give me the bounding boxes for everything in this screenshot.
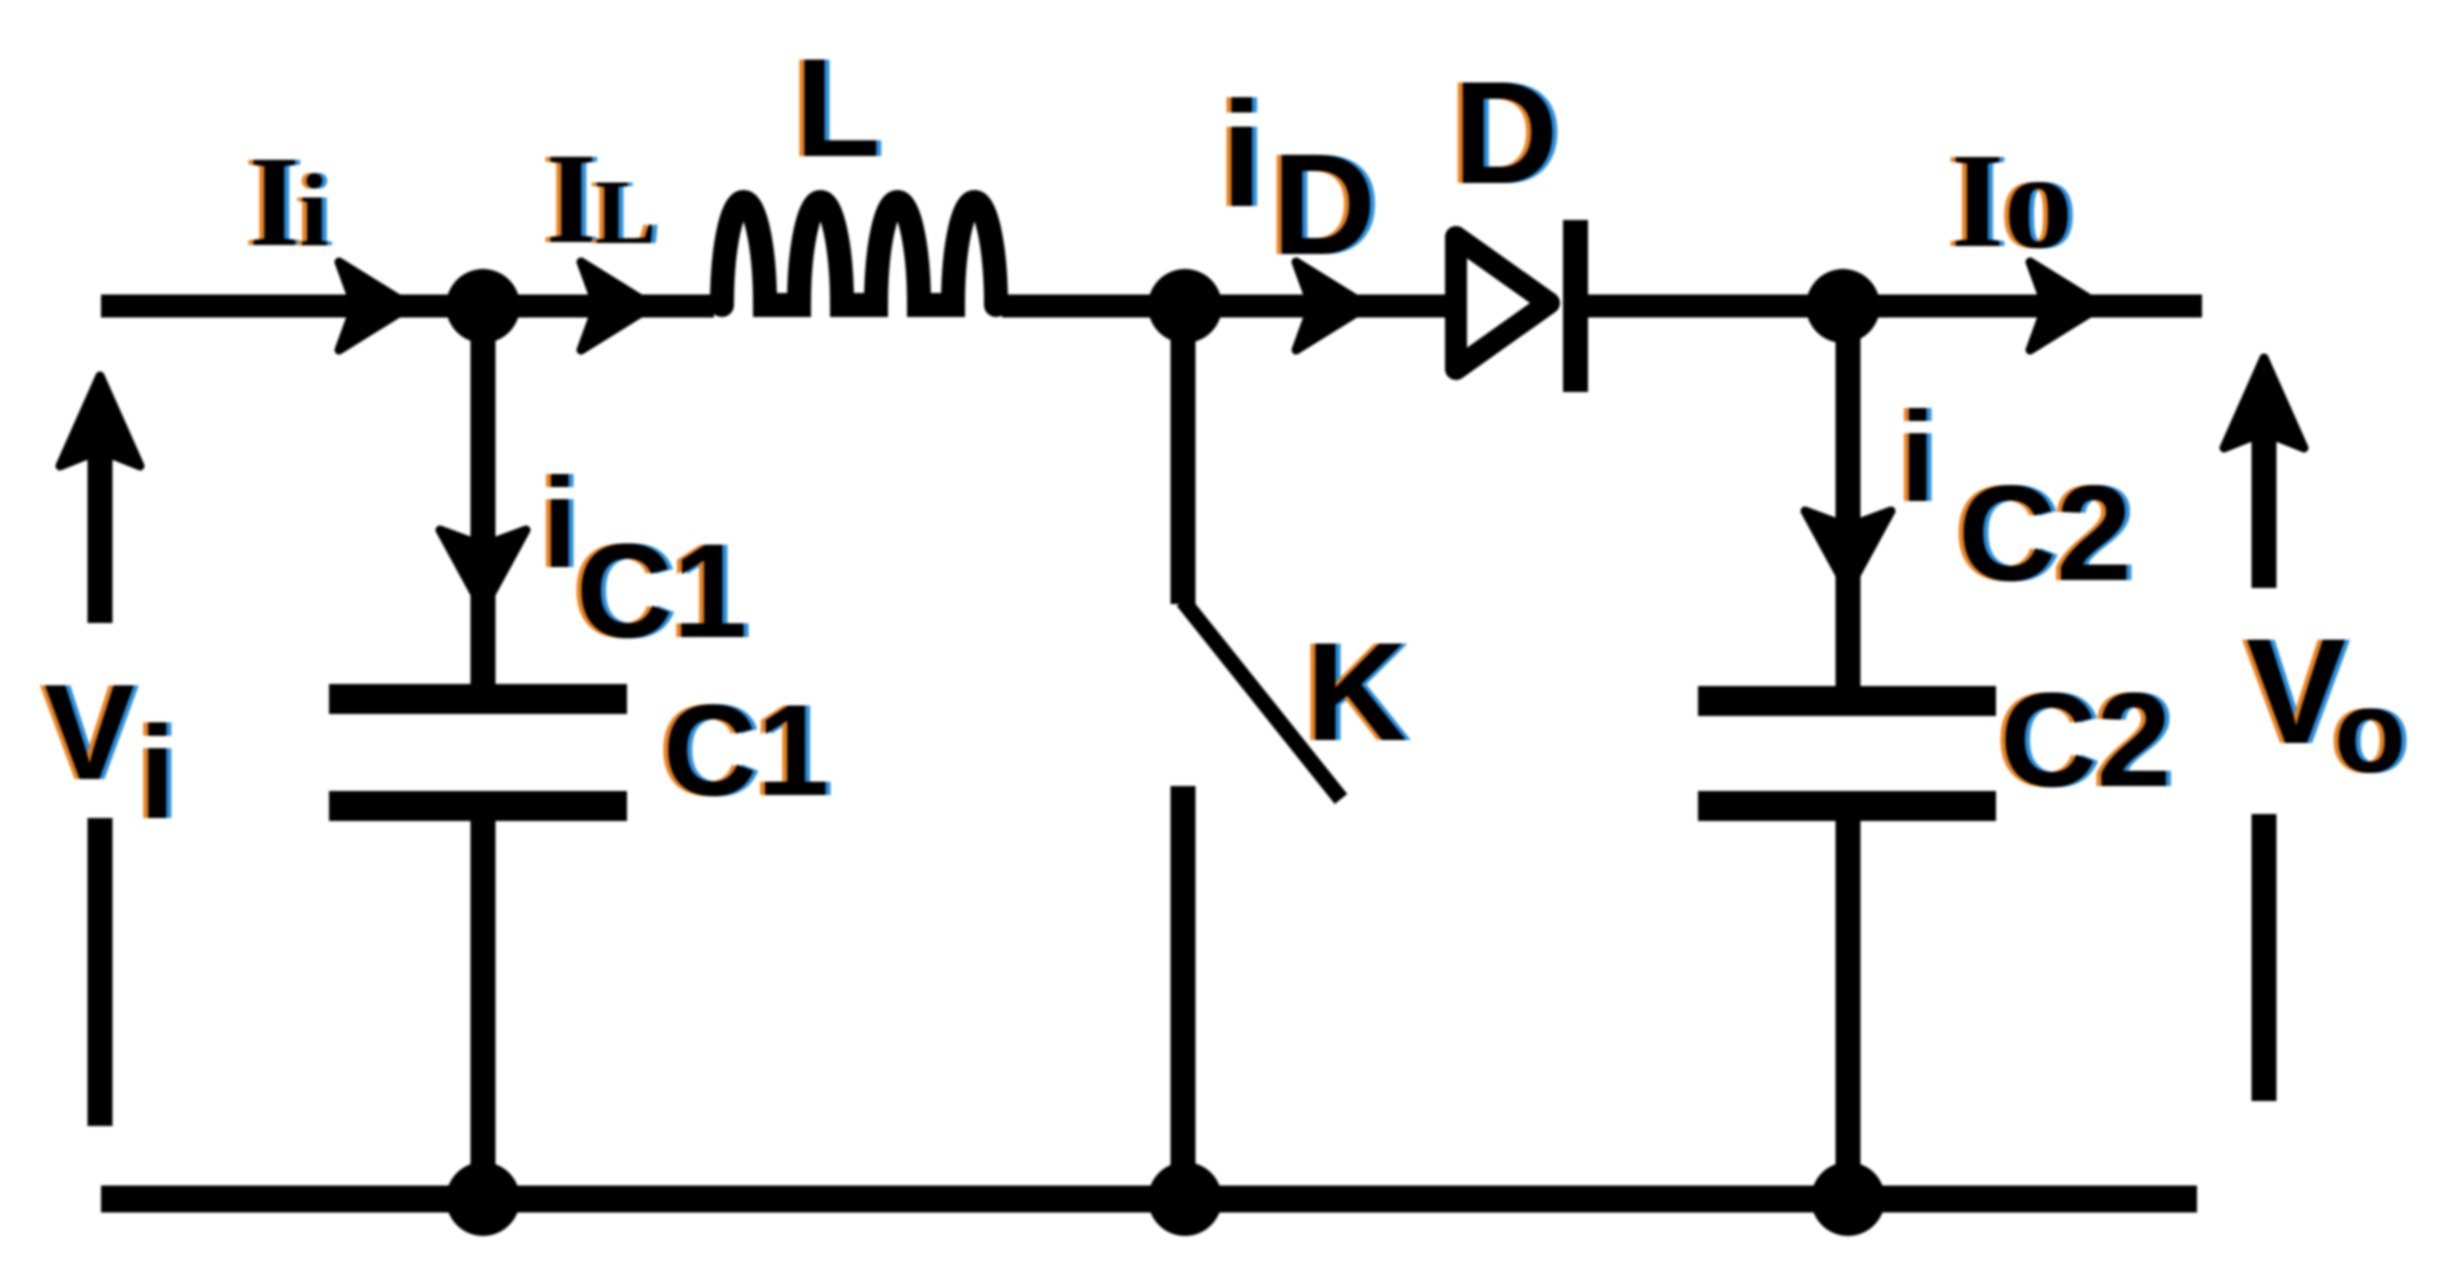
diode D cathode bar bbox=[1563, 220, 1588, 392]
svg-text:C2: C2 bbox=[1958, 457, 2132, 609]
wire C1 upper stem bbox=[471, 306, 496, 684]
wire Vo lower stub bbox=[2252, 814, 2277, 1101]
svg-text:C1: C1 bbox=[576, 517, 747, 666]
capacitor C1 bottom plate bbox=[329, 791, 627, 821]
wire C2 upper stem bbox=[1836, 306, 1861, 686]
node E junction dot bottom-mid bbox=[1148, 1162, 1222, 1236]
svg-text:V: V bbox=[44, 656, 135, 808]
arrow Io current arrowhead bbox=[2030, 262, 2101, 350]
arrow Vi voltage arrow bbox=[88, 440, 113, 623]
svg-text:I: I bbox=[546, 127, 597, 271]
capacitor C2 bottom plate bbox=[1698, 791, 1996, 821]
svg-text:o: o bbox=[2004, 124, 2073, 277]
svg-text:i: i bbox=[1221, 70, 1263, 238]
node D junction dot bottom-left bbox=[446, 1162, 520, 1236]
svg-text:C2: C2 bbox=[2000, 666, 2171, 815]
svg-text:D: D bbox=[1272, 124, 1376, 285]
capacitor C2 top plate bbox=[1698, 686, 1996, 716]
wire top rail left segment bbox=[101, 295, 714, 318]
arrow iD current arrowhead bbox=[1296, 262, 1367, 350]
svg-text:D: D bbox=[1453, 51, 1558, 214]
wire Vi lower stub bbox=[88, 818, 113, 1126]
arrow Ii current arrowhead bbox=[339, 262, 410, 350]
capacitor C1 top plate bbox=[329, 684, 627, 714]
node F junction dot bottom-right bbox=[1811, 1162, 1885, 1236]
svg-text:C1: C1 bbox=[663, 677, 829, 823]
svg-text:I: I bbox=[1951, 126, 2004, 276]
wire C2 lower stem bbox=[1836, 821, 1861, 1199]
svg-text:i: i bbox=[542, 452, 578, 595]
node B junction dot mid-top bbox=[1148, 269, 1222, 343]
wire top rail mid segment bbox=[1002, 295, 1455, 318]
arrow iC2 down arrowhead bbox=[1805, 511, 1891, 590]
inductor L coil bbox=[722, 202, 996, 305]
wire bottom rail bbox=[101, 1186, 2197, 1213]
wire top rail right segment bbox=[1580, 295, 2202, 318]
svg-text:L: L bbox=[595, 161, 656, 263]
arrow Vo voltage arrow bbox=[2252, 430, 2277, 588]
svg-text:V: V bbox=[2246, 607, 2346, 775]
node A junction dot top-left bbox=[446, 269, 520, 343]
wire switch upper stem bbox=[1171, 306, 1196, 604]
svg-text:L: L bbox=[795, 29, 881, 186]
arrow iC1 down arrowhead bbox=[440, 530, 526, 609]
switch K blade bbox=[1183, 601, 1341, 799]
wire switch lower stem bbox=[1171, 786, 1196, 1199]
node C junction dot top-right bbox=[1806, 269, 1880, 343]
diode D triangle bbox=[1456, 237, 1549, 369]
svg-text:K: K bbox=[1306, 613, 1407, 770]
svg-text:i: i bbox=[139, 699, 176, 846]
svg-text:o: o bbox=[2334, 666, 2406, 798]
arrow IL current arrowhead bbox=[581, 262, 652, 350]
svg-text:i: i bbox=[1900, 386, 1936, 529]
wire C1 lower stem bbox=[471, 821, 496, 1199]
